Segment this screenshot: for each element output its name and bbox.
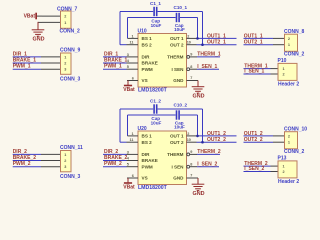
wire DIR_1 to U10 [103,56,127,58]
svg-text:7: 7 [190,174,192,178]
svg-text:8: 8 [190,65,192,69]
svg-text:DIR: DIR [142,55,151,60]
svg-text:OUT1_1: OUT1_1 [244,33,263,39]
svg-text:VBat: VBat [123,185,135,191]
svg-text:GND: GND [193,94,205,100]
svg-text:10: 10 [187,138,191,142]
svg-text:8: 8 [190,162,192,166]
svg-text:C1_1: C1_1 [150,1,161,6]
wire THERM_2 (at U20) [197,153,220,155]
wire THERM_1 (at U10) [197,56,220,58]
svg-text:9: 9 [190,150,192,154]
wire BS2 loop (outer) of U10 [120,11,153,13]
svg-text:Header 2: Header 2 [278,179,299,185]
U10 pin 8 I SEN [187,68,190,71]
svg-text:VBat: VBat [123,87,135,93]
U20 pin names [142,134,185,181]
wire VBat to CONN_7 pin 2 [37,15,42,17]
ground at U20 pin 7 [192,178,205,191]
wire BRAKE_1 to U10 [103,62,127,64]
svg-text:PWM: PWM [142,164,153,169]
svg-text:I SEN: I SEN [172,164,185,169]
connector CONN_8 pin 1 [273,44,285,46]
connector CONN_10 pin 1 [273,141,285,143]
svg-text:VS: VS [142,78,148,83]
svg-text:CONN_2: CONN_2 [284,52,305,58]
connector P13 pin 2 [271,171,279,173]
svg-text:OUT 1: OUT 1 [170,134,184,139]
U20 pin 4 BRAKE [127,160,139,162]
U20 pin 9 THERM [187,153,190,156]
U20 pin 3 DIR [127,153,139,155]
U20 pin 11 BS 2 [127,141,139,143]
wire THERM_2 (to P13) [244,165,271,167]
svg-text:C10_1: C10_1 [174,5,188,10]
svg-text:PWM: PWM [142,67,153,72]
power port VBat at U10 [124,81,132,86]
svg-text:CONN_9: CONN_9 [60,47,81,53]
svg-text:CONN_2: CONN_2 [284,149,305,155]
svg-text:3: 3 [127,150,129,154]
connector CONN_10 pin 2 [273,135,285,137]
capacitor C1_1 10uF [153,7,155,16]
wire OUT1_1 (at U10) [197,37,237,39]
U10 pin 6 VS [127,80,138,82]
svg-text:GND: GND [173,176,184,181]
svg-text:THERM: THERM [167,55,184,60]
wire BRAKE_2 to U20 [103,160,127,162]
U10 pin 1 BS 1 [128,37,139,39]
U20 pin 1 BS 1 [128,135,139,137]
svg-text:2: 2 [288,37,290,41]
svg-text:CONN_3: CONN_3 [60,174,81,180]
U20 pin 5 PWM [127,166,139,168]
svg-text:I_SEN_1: I_SEN_1 [244,69,264,75]
svg-text:2: 2 [64,159,66,163]
svg-text:1: 1 [64,55,66,59]
wire OUT2_2 (at U20) [197,141,237,143]
svg-text:1: 1 [64,153,66,157]
svg-text:1: 1 [288,43,290,47]
svg-text:CONN_11: CONN_11 [60,145,83,151]
connector CONN_7 pin 2 [42,15,61,17]
connector CONN_11 pin 1 [41,153,61,155]
wire BS2 loop (outer) of U20 [120,108,153,110]
svg-text:I SEN: I SEN [172,67,185,72]
wire PWM_1 (left) [13,68,41,70]
svg-text:I_SEN_2: I_SEN_2 [244,166,264,172]
svg-text:10uF: 10uF [151,121,162,126]
svg-text:BS 2: BS 2 [142,140,153,145]
U20 pin 2 OUT 1 [187,135,197,137]
connector CONN_9 pin 2 [41,62,61,64]
connector CONN_11 pin 2 [41,160,61,162]
connector CONN_9 pin 3 [41,68,61,70]
connector CONN_7 pin 1 [42,21,61,23]
wire BS1 loop (inner) of U20 [128,114,176,116]
svg-text:1: 1 [288,141,290,145]
U20 pin 10 OUT 2 [187,141,197,143]
connector P13 pin 1 [271,165,279,167]
ground at CONN_7 [32,22,45,36]
svg-text:LMD18200T: LMD18200T [138,88,168,94]
svg-text:OUT1_2: OUT1_2 [244,131,263,137]
svg-text:THERM_1: THERM_1 [197,52,221,58]
wire DIR_1 (left) [13,56,41,58]
capacitor C10_1 10uF [176,13,178,22]
svg-text:OUT2_1: OUT2_1 [207,40,226,46]
wire GND to CONN_7 pin 1 [38,21,42,23]
svg-text:OUT 2: OUT 2 [170,140,184,145]
svg-text:1: 1 [131,132,133,136]
svg-text:10uF: 10uF [174,125,185,130]
wire OUT2_2 (to CONN_10) [244,141,274,143]
junction on OUT1_2 [196,135,199,138]
svg-text:THERM_2: THERM_2 [197,149,221,155]
svg-text:GND: GND [33,37,45,43]
svg-text:2: 2 [288,134,290,138]
wire BRAKE_1 (left) [13,62,41,64]
wire THERM_1 (to P10) [244,68,271,70]
wire OUT2_1 (at U10) [197,44,237,46]
svg-text:10: 10 [187,41,191,45]
U20 pin 6 VS [127,177,138,179]
U10 pin 3 DIR [127,56,139,58]
wire OUT1_1 (to CONN_8) [244,37,274,39]
U10 pin 9 THERM [187,56,190,59]
svg-text:BS 1: BS 1 [142,36,153,41]
svg-text:11: 11 [129,41,133,45]
svg-text:OUT 1: OUT 1 [170,36,184,41]
wire OUT2_1 (to CONN_8) [244,44,274,46]
svg-text:BS 2: BS 2 [142,42,153,47]
svg-text:3: 3 [64,165,66,169]
connector CONN_9 pin 1 [41,56,61,58]
junction on OUT2_1 [201,43,204,46]
wire DIR_2 to U20 [103,153,127,155]
svg-text:OUT2_1: OUT2_1 [244,40,263,46]
wire OUT1_2 (at U20) [197,135,237,137]
svg-text:BRAKE: BRAKE [142,158,158,163]
svg-text:2: 2 [283,170,285,174]
svg-text:GND: GND [193,191,205,197]
U10 pin 5 PWM [127,68,139,70]
svg-text:OUT1_2: OUT1_2 [207,131,226,137]
wire BS1 loop (inner) of U10 [128,17,176,19]
svg-text:11: 11 [129,138,133,142]
connector P10 pin 2 [271,73,279,75]
svg-text:OUT1_1: OUT1_1 [207,33,226,39]
svg-text:5: 5 [127,163,129,167]
svg-text:1: 1 [283,165,285,169]
svg-text:OUT2_2: OUT2_2 [207,137,226,143]
svg-text:Header 2: Header 2 [278,81,299,87]
svg-text:C1_2: C1_2 [150,98,161,103]
capacitor C1_2 10uF [153,104,155,113]
svg-text:6: 6 [132,76,134,80]
svg-text:2: 2 [64,15,66,19]
svg-text:OUT2_2: OUT2_2 [244,137,263,143]
wire BRAKE_2 (left) [13,160,41,162]
svg-text:I_SEN_1: I_SEN_1 [197,64,217,70]
svg-text:THERM: THERM [167,152,184,157]
svg-text:10uF: 10uF [151,23,162,28]
svg-text:2: 2 [283,73,285,77]
svg-text:5: 5 [127,65,129,69]
svg-text:7: 7 [190,76,192,80]
junction on OUT2_2 [201,141,204,144]
svg-text:VS: VS [142,176,148,181]
wire PWM_2 (left) [13,166,41,168]
U10 pin 7 GND [187,80,199,82]
svg-text:OUT 2: OUT 2 [170,42,184,47]
U10 pin 11 BS 2 [127,44,139,46]
U10 pin 10 OUT 2 [187,44,197,46]
U10 pin names [142,36,185,83]
wire PWM_2 to U20 [103,166,127,168]
U20 pin 8 I SEN [187,165,190,168]
junction on OUT1_1 [196,37,199,40]
svg-text:C10_2: C10_2 [174,102,188,107]
svg-text:2: 2 [187,132,189,136]
svg-text:6: 6 [132,174,134,178]
svg-text:DIR: DIR [142,152,151,157]
wire I_SEN_2 (to P13) [244,171,271,173]
wire I_SEN_2 (at U20) [197,166,219,168]
U10 pin 2 OUT 1 [187,37,197,39]
wire PWM_1 to U10 [103,68,127,70]
svg-text:10uF: 10uF [174,27,185,32]
wire DIR_2 (left) [13,153,41,155]
U20 pin 7 GND [187,177,199,179]
svg-text:2: 2 [64,62,66,66]
wire I_SEN_1 (at U10) [197,68,219,70]
wire OUT1_2 (to CONN_10) [244,135,274,137]
power port VBat at U20 [124,178,132,183]
svg-text:BS 1: BS 1 [142,134,153,139]
capacitor C10_2 10uF [176,110,178,119]
svg-text:I_SEN_2: I_SEN_2 [197,161,217,167]
svg-text:9: 9 [190,53,192,57]
svg-text:CONN_3: CONN_3 [60,77,81,83]
svg-text:LMD18200T: LMD18200T [138,185,168,191]
svg-text:2: 2 [187,34,189,38]
svg-text:3: 3 [64,68,66,72]
wire I_SEN_1 (to P10) [244,73,271,75]
svg-text:3: 3 [127,53,129,57]
U10 pin 4 BRAKE [127,62,139,64]
svg-text:1: 1 [283,67,285,71]
svg-text:CONN_2: CONN_2 [60,29,81,35]
connector CONN_11 pin 3 [41,166,61,168]
svg-text:BRAKE: BRAKE [142,61,158,66]
svg-text:1: 1 [64,21,66,25]
connector P10 pin 1 [271,68,279,70]
connector CONN_8 pin 2 [273,37,285,39]
ground at U10 pin 7 [192,81,205,94]
svg-text:1: 1 [131,34,133,38]
svg-text:GND: GND [173,78,184,83]
svg-text:VBat: VBat [24,14,36,20]
